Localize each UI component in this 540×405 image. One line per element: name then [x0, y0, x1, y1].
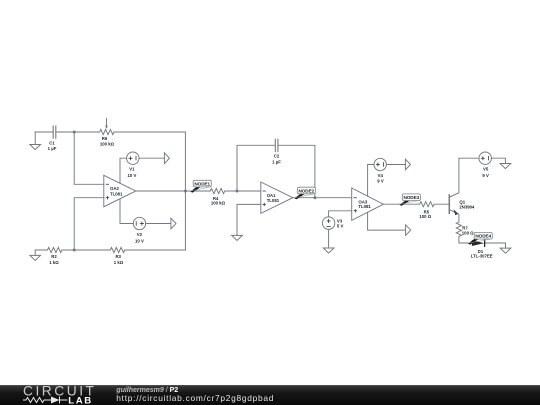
- svg-text:LAB: LAB: [68, 396, 93, 405]
- svg-text:1 µF: 1 µF: [48, 146, 57, 151]
- svg-text:100 Ω: 100 Ω: [419, 214, 431, 219]
- svg-text:5 V: 5 V: [337, 224, 344, 229]
- svg-text:1 kΩ: 1 kΩ: [49, 260, 59, 265]
- svg-text:NODE2: NODE2: [299, 188, 315, 193]
- svg-text:R2: R2: [51, 254, 57, 259]
- svg-text:100 Ω: 100 Ω: [462, 231, 474, 236]
- svg-text:TL081: TL081: [358, 204, 371, 209]
- svg-text:9 V: 9 V: [377, 179, 384, 184]
- svg-text:NODE4: NODE4: [475, 234, 491, 239]
- svg-text:V1: V1: [129, 167, 135, 172]
- svg-text:10 V: 10 V: [135, 238, 144, 243]
- svg-text:http://circuitlab.com/cr7p2g8g: http://circuitlab.com/cr7p2g8gdpbad: [116, 393, 274, 403]
- svg-text:V2: V2: [137, 232, 143, 237]
- svg-text:C2: C2: [274, 154, 280, 159]
- svg-text:V5: V5: [483, 167, 489, 172]
- svg-text:C1: C1: [49, 140, 55, 145]
- svg-text:V4: V4: [378, 173, 384, 178]
- svg-text:10 V: 10 V: [127, 173, 136, 178]
- svg-text:R3: R3: [115, 254, 121, 259]
- svg-text:100 kΩ: 100 kΩ: [211, 201, 226, 206]
- svg-text:R6: R6: [102, 136, 108, 141]
- svg-text:NODE3: NODE3: [404, 195, 420, 200]
- svg-text:1 kΩ: 1 kΩ: [114, 260, 124, 265]
- svg-text:2N3904: 2N3904: [459, 204, 475, 209]
- svg-text:9 V: 9 V: [482, 173, 489, 178]
- svg-text:NODE1: NODE1: [194, 182, 210, 187]
- svg-text:TL081: TL081: [110, 191, 123, 196]
- svg-text:100 kΩ: 100 kΩ: [100, 142, 115, 147]
- svg-text:1 µF: 1 µF: [272, 159, 281, 164]
- svg-text:TL081: TL081: [267, 198, 280, 203]
- svg-text:LTL-307EE: LTL-307EE: [471, 253, 493, 258]
